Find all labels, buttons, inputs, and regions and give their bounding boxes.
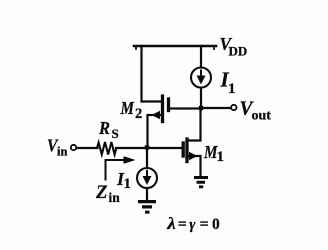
svg-text:2: 2 [135, 106, 142, 122]
terminal Vout open circle [231, 105, 236, 110]
wire M1 source stub to ground [189, 156, 201, 176]
resistor RS [97, 142, 116, 155]
transistor M2 gate bar [167, 99, 170, 111]
wire rail to current source I1 top [200, 46, 202, 68]
svg-text:=: = [200, 216, 209, 233]
svg-text:λ: λ [166, 214, 176, 233]
svg-text:in: in [57, 145, 67, 159]
arrow M2 source (points left) [152, 111, 161, 119]
wire M2 source stub [149, 114, 161, 116]
wire node X to current source I1 bottom [146, 148, 148, 169]
svg-text:R: R [98, 118, 110, 138]
wire I1 to Vout node [200, 88, 202, 109]
svg-text:S: S [112, 126, 119, 141]
arrow M1 source (points right) [189, 152, 198, 160]
svg-text:=: = [178, 216, 187, 233]
svg-text:out: out [252, 109, 272, 124]
wire Vin terminal to resistor [77, 147, 98, 149]
wire M2 source down to node X [146, 115, 148, 148]
arrow inside top current source [197, 76, 206, 85]
svg-text:M: M [120, 98, 135, 118]
svg-text:1: 1 [228, 81, 236, 97]
ground (right, M1 source) [194, 176, 208, 188]
wire node X to M1 gate [116, 147, 182, 149]
wire M1 drain to Vout node [189, 108, 201, 141]
current source I1 (top) [191, 68, 211, 88]
terminal Vin open circle [71, 145, 76, 150]
wire M2 gate lead to Vout node [170, 107, 201, 109]
wire I1 bottom to ground [146, 188, 148, 200]
wire rail to M2 drain [142, 46, 162, 102]
svg-text:0: 0 [212, 216, 220, 233]
svg-text:DD: DD [229, 44, 248, 59]
arrow inside bottom current source [143, 176, 152, 185]
Zin arrow [105, 159, 125, 181]
transistor M1 gate bar [182, 143, 185, 156]
svg-text:in: in [109, 190, 121, 205]
svg-text:Z: Z [95, 182, 108, 203]
wire Vout node to output terminal [201, 107, 231, 109]
node X junction dot [144, 145, 149, 150]
node Vout junction dot [198, 105, 203, 110]
transistor M1 channel bar [185, 139, 188, 162]
current source I1 (bottom) [137, 168, 157, 188]
svg-text:1: 1 [124, 176, 132, 192]
svg-text:γ: γ [189, 217, 196, 233]
svg-text:1: 1 [217, 149, 225, 165]
wire VDD rail [134, 45, 216, 48]
transistor M2 channel bar [161, 96, 164, 122]
ground (left, below bottom I1) [138, 200, 156, 214]
